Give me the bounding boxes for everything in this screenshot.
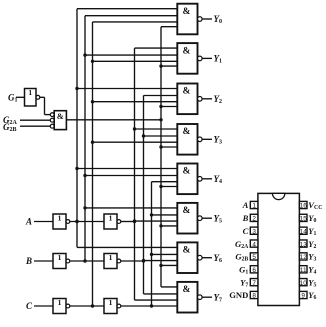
NAND gate U3 output Y2	[177, 84, 202, 115]
svg-text:1: 1	[109, 298, 113, 307]
pin 11	[299, 266, 307, 274]
svg-text:10: 10	[300, 280, 308, 287]
junction G row U4	[159, 145, 162, 148]
wire A to trunk	[121, 221, 135, 223]
svg-text:2: 2	[252, 216, 256, 223]
svg-text:Y1: Y1	[308, 226, 316, 237]
svg-text:B: B	[25, 256, 32, 266]
wire A to U6 input 3	[135, 220, 178, 222]
junction A' row U5	[75, 167, 78, 170]
wire trunk A'	[76, 9, 78, 248]
wire A-bar node	[70, 221, 104, 223]
pin 15	[299, 214, 307, 222]
wire trunk C'	[92, 22, 94, 306]
wire B' to U6 input 1	[85, 207, 177, 209]
svg-text:C: C	[243, 226, 249, 236]
wire B to U4 input 2	[144, 135, 178, 137]
svg-text:Y3: Y3	[308, 252, 316, 263]
svg-text:Y5: Y5	[214, 213, 223, 224]
svg-text:G2B: G2B	[235, 252, 248, 263]
svg-text:Y3: Y3	[214, 135, 223, 146]
wire A to U4 input 1	[135, 128, 178, 130]
svg-text:1: 1	[58, 253, 62, 262]
pin 1	[250, 201, 258, 209]
svg-text:11: 11	[300, 267, 307, 274]
wire output Y1	[202, 57, 212, 59]
svg-text:3: 3	[252, 228, 256, 235]
NAND gate U1 output Y0	[177, 4, 202, 35]
wire A' to U1 input 1	[77, 8, 177, 10]
svg-text:VCC: VCC	[308, 200, 322, 211]
junction C' row U3	[91, 100, 94, 103]
svg-text:1: 1	[109, 253, 113, 262]
junction G row U3	[159, 105, 162, 108]
svg-text:1: 1	[109, 213, 113, 222]
NAND gate U4 output Y3	[177, 124, 202, 155]
inverter 1 of C	[53, 298, 70, 314]
svg-text:Y5: Y5	[308, 277, 316, 288]
junction A row U4	[133, 127, 136, 130]
svg-text:B: B	[242, 213, 249, 223]
NAND gate U7 output Y6	[177, 242, 202, 273]
svg-text:&: &	[182, 206, 190, 216]
wire trunk G	[160, 27, 162, 287]
svg-text:&: &	[182, 285, 190, 295]
svg-text:16: 16	[300, 203, 308, 210]
svg-text:Y6: Y6	[214, 253, 223, 264]
svg-text:&: &	[182, 127, 190, 137]
svg-text:1: 1	[58, 298, 62, 307]
wire G to U4 input 4	[161, 146, 177, 148]
wire A to U8 input 3	[135, 299, 178, 301]
pin 14	[299, 227, 307, 235]
svg-text:&: &	[182, 46, 190, 56]
junction B row U4	[142, 134, 145, 137]
svg-text:7: 7	[252, 280, 256, 287]
wire B' to U2 input 2	[85, 54, 177, 56]
svg-text:A: A	[25, 217, 32, 227]
svg-text:Y0: Y0	[214, 14, 223, 25]
junction A trunk join	[133, 220, 136, 223]
wire G2A	[20, 119, 50, 121]
junction B' row U6	[83, 206, 86, 209]
svg-text:5: 5	[252, 254, 256, 261]
wire C to U5 input 3	[152, 181, 178, 183]
inverter 2 of C	[104, 298, 121, 314]
wire B to U8 input 2	[144, 293, 178, 295]
wire G1 input	[16, 96, 25, 98]
wire G2B	[20, 125, 50, 127]
junction G row U2	[159, 64, 162, 67]
pin 9	[299, 291, 307, 299]
junction A-bar	[75, 220, 78, 223]
junction enable G	[159, 118, 162, 121]
wire C to U6 input 2	[152, 214, 178, 216]
svg-text:14: 14	[300, 228, 308, 235]
svg-text:Y1: Y1	[214, 54, 223, 65]
svg-text:C: C	[26, 301, 33, 311]
svg-text:Y4: Y4	[214, 174, 223, 185]
svg-text:15: 15	[300, 216, 308, 223]
pin 10	[299, 279, 307, 287]
wire G to U8 input 1	[161, 286, 177, 288]
wire B-bar node	[70, 260, 104, 262]
svg-text:9: 9	[301, 293, 305, 300]
svg-text:&: &	[182, 7, 190, 17]
package notch	[272, 193, 284, 199]
svg-text:1: 1	[28, 88, 32, 97]
NAND gate U6 output Y5	[177, 203, 202, 234]
pin 3	[250, 227, 258, 235]
pin 6	[250, 266, 258, 274]
svg-text:G2A: G2A	[235, 239, 249, 250]
wire C' to U3 input 3	[93, 101, 178, 103]
buffer G1	[25, 88, 40, 106]
wire trunk C	[151, 182, 153, 306]
wire trunk A	[134, 48, 136, 300]
wire trunk B'	[84, 16, 86, 261]
junction C' row U4	[91, 141, 94, 144]
wire C to inverter	[34, 305, 53, 307]
svg-text:G1: G1	[239, 264, 248, 275]
svg-text:Y2: Y2	[214, 94, 223, 105]
junction G row U7	[159, 264, 162, 267]
wire output Y6	[202, 257, 212, 259]
wire G1 to enable gate	[40, 96, 45, 98]
junction A' row U3	[75, 87, 78, 90]
wire trunk B	[143, 96, 145, 294]
wire C' to U1 input 3	[93, 21, 178, 23]
wire B to trunk	[121, 260, 144, 262]
wire G to U1 input 4	[161, 26, 177, 28]
junction B-bar	[83, 259, 86, 262]
svg-text:&: &	[182, 87, 190, 97]
junction A' on A row	[75, 220, 78, 223]
wire B' to U5 input 2	[85, 175, 177, 177]
junction A row U6	[133, 219, 136, 222]
wire output Y5	[202, 217, 212, 219]
junction G row U6	[159, 224, 162, 227]
svg-text:Y0: Y0	[308, 213, 316, 224]
wire output Y0	[202, 18, 212, 20]
wire G to U5 input 4	[161, 186, 177, 188]
wire C-bar node	[70, 305, 104, 307]
pin 5	[250, 253, 258, 261]
wire C to U7 input 2	[152, 253, 178, 255]
wire G to U7 input 4	[161, 264, 177, 266]
wire A to inverter	[34, 221, 53, 223]
svg-text:4: 4	[252, 241, 256, 248]
wire output Y4	[202, 178, 212, 180]
wire B' to U1 input 2	[85, 15, 177, 17]
wire B to U7 input 3	[144, 260, 178, 262]
pin 12	[299, 253, 307, 261]
junction C trunk	[150, 304, 153, 307]
junction C' row U2	[91, 60, 94, 63]
junction C-bar	[91, 304, 94, 307]
pin 4	[250, 240, 258, 248]
wire A' to U5 input 1	[77, 168, 177, 170]
svg-text:12: 12	[300, 254, 308, 261]
wire output Y3	[202, 138, 212, 140]
svg-text:1: 1	[252, 203, 256, 210]
pin 7	[250, 279, 258, 287]
wire C to NAND U8 input 4	[121, 305, 178, 307]
wire B to inverter	[34, 260, 53, 262]
svg-text:8: 8	[252, 293, 256, 300]
junction C row U6	[150, 213, 153, 216]
wire C' to U4 input 3	[93, 141, 178, 143]
wire B to U3 input 2	[144, 95, 178, 97]
wire G to U3 input 4	[161, 106, 177, 108]
pin 16	[299, 201, 307, 209]
wire output Y2	[202, 98, 212, 100]
junction B row U7	[142, 259, 145, 262]
junction C row U7	[150, 253, 153, 256]
wire A' to U3 input 1	[77, 88, 177, 90]
inverter 2 of B	[104, 253, 121, 269]
svg-text:A: A	[242, 200, 249, 210]
pin 8	[250, 291, 258, 299]
junction B' row U2	[83, 53, 86, 56]
svg-text:Y7: Y7	[214, 292, 223, 303]
junction G row U5	[159, 185, 162, 188]
IC package DIP-16 body	[258, 193, 300, 305]
svg-text:Y7: Y7	[240, 277, 248, 288]
wire enable G to trunk	[66, 119, 161, 121]
wire C' to U2 input 3	[93, 60, 178, 62]
svg-text:GND: GND	[229, 290, 248, 300]
svg-text:&: &	[182, 167, 190, 177]
wire output Y7	[202, 296, 212, 298]
pin 2	[250, 214, 258, 222]
wire A' to U7 input 1	[77, 246, 177, 248]
inverter 2 of A	[104, 213, 121, 229]
svg-text:Y4: Y4	[308, 264, 316, 275]
NAND gate U8 output Y7	[177, 282, 202, 313]
svg-text:6: 6	[252, 267, 256, 274]
wire G to U2 input 4	[161, 65, 177, 67]
inverter 1 of A	[53, 213, 70, 229]
svg-text:Y6: Y6	[308, 290, 316, 301]
svg-text:Y2: Y2	[308, 239, 316, 250]
svg-text:1: 1	[58, 213, 62, 222]
NAND gate U2 output Y1	[177, 43, 202, 74]
svg-text:13: 13	[300, 241, 308, 248]
svg-text:&: &	[57, 111, 64, 121]
AND gate enable G	[50, 111, 66, 130]
NAND gate U5 output Y4	[177, 164, 202, 195]
inverter 1 of B	[53, 253, 70, 269]
wire G to U6 input 4	[161, 225, 177, 227]
wire A to U2 input 1	[135, 47, 178, 49]
junction B trunk join	[142, 259, 145, 262]
pin 13	[299, 240, 307, 248]
svg-text:&: &	[182, 246, 190, 256]
junction B' row U5	[83, 174, 86, 177]
